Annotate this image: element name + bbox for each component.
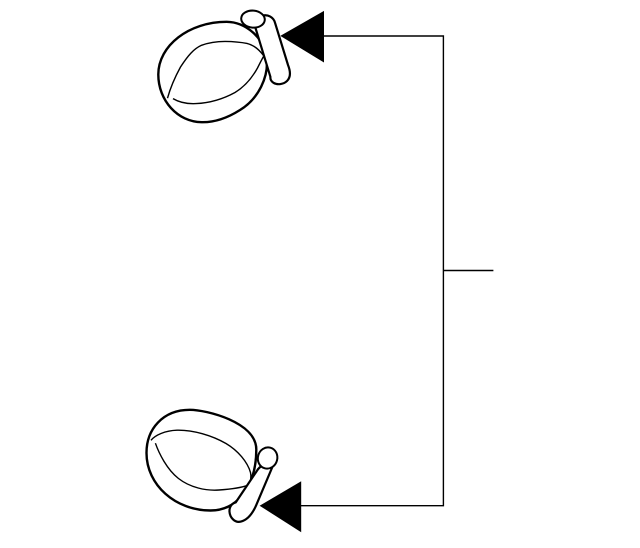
outer band	[146, 410, 256, 511]
wire middle tick	[443, 270, 493, 272]
inner far-wall lower arc	[155, 443, 247, 490]
arrow to bottom clamp	[260, 481, 302, 532]
inner rim upper arc	[151, 430, 251, 485]
hose clamp (bottom)	[146, 410, 279, 522]
screw head	[241, 10, 266, 29]
outer band	[158, 22, 267, 122]
inner rim upper arc	[168, 41, 264, 98]
inner far-wall lower arc	[173, 57, 264, 104]
screw housing	[229, 464, 272, 521]
wire leader polyline (top horizontal, right vertical, bottom horizontal)	[301, 36, 443, 506]
screw head	[255, 445, 279, 471]
screw housing	[255, 15, 290, 84]
hose clamp (top)	[158, 10, 290, 123]
arrow to top clamp	[280, 11, 324, 63]
